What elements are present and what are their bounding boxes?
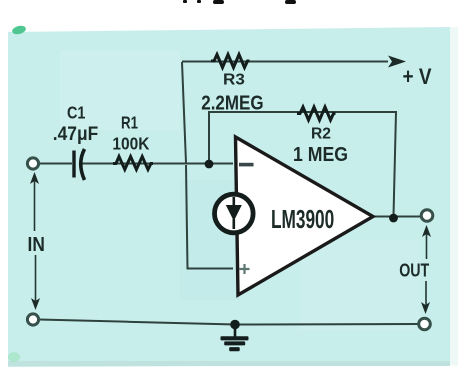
svg-text:R3: R3 bbox=[223, 72, 245, 89]
svg-text:100K: 100K bbox=[112, 134, 149, 154]
svg-text:+ V: + V bbox=[403, 64, 432, 89]
svg-text:R2: R2 bbox=[311, 126, 331, 143]
svg-text:.47μF: .47μF bbox=[53, 123, 98, 145]
svg-text:1 MEG: 1 MEG bbox=[293, 143, 348, 166]
svg-text:2.2MEG: 2.2MEG bbox=[201, 92, 263, 114]
svg-text:R1: R1 bbox=[121, 112, 138, 132]
svg-text:C1: C1 bbox=[67, 103, 86, 123]
svg-text:LM3900: LM3900 bbox=[271, 204, 334, 234]
svg-text:IN: IN bbox=[28, 234, 45, 256]
svg-text:OUT: OUT bbox=[399, 261, 429, 281]
